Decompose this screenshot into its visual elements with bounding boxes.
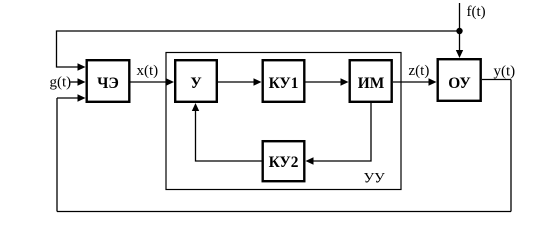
svg-text:x(t): x(t) [137,63,159,79]
svg-text:У: У [190,75,201,92]
wire: f(t) disturbance vertical line [459,3,461,50]
wire: feedback into ChE bottom input [57,97,78,99]
arrowhead into KU1 left [254,78,262,85]
arrowhead into KU2 right [306,157,314,164]
block KU1 [263,60,305,102]
arrowhead g(t) into ChE [78,78,86,85]
svg-text:УУ: УУ [364,171,386,187]
arrowhead into ChE bottom input [78,94,86,101]
arrowhead into U bottom [192,103,199,111]
svg-text:КУ1: КУ1 [269,75,299,92]
arrowhead into OU top [456,50,463,58]
node: junction dot on f(t) line [456,28,462,34]
svg-text:f(t): f(t) [467,4,486,20]
svg-text:y(t): y(t) [494,64,516,80]
wire: feedback bottom horizontal [57,211,511,213]
block IM [350,60,392,102]
arrowhead into OU left [429,78,437,85]
wire: KU2 output left and up to U bottom [196,111,262,162]
svg-text:КУ2: КУ2 [269,154,299,171]
wire: feedback left vertical [56,98,58,212]
arrowhead into U left [166,78,174,85]
wire: U to KU1 [218,81,254,83]
wire z(t): IM to OU [393,81,429,83]
wire: IM bottom tap down and left to KU2 input [314,103,372,162]
wire: KU1 to IM [306,81,342,83]
svg-text:ОУ: ОУ [448,75,470,92]
box: control device UU container [166,53,401,190]
wire: g(t) input [71,81,79,83]
arrowhead into IM left [341,78,349,85]
wire: feedback right vertical [510,80,512,212]
arrowhead into ChE top input [78,63,86,70]
svg-text:ИМ: ИМ [358,75,385,92]
block KU2 [263,141,305,181]
svg-text:ЧЭ: ЧЭ [97,75,119,92]
svg-text:g(t): g(t) [50,75,72,91]
wire: feedforward from junction to ChE top input [57,31,460,67]
wire: y(t) output from OU [482,79,511,81]
block U [175,60,217,102]
block OU [438,59,481,101]
wire x(t): ChE to U [131,81,167,83]
svg-text:z(t): z(t) [409,63,430,79]
block ChE [87,60,130,102]
